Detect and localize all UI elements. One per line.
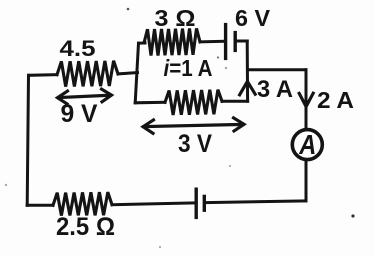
resistor (3 V branch): [165, 90, 222, 115]
wire: left vertical: [27, 75, 28, 205]
wire: box to right vertical (node): [248, 68, 306, 71]
svg-text:4.5: 4.5: [60, 36, 96, 61]
wire: R 3 to battery 6V: [200, 40, 224, 44]
wire: bottom branch right lead: [222, 100, 248, 103]
wire: bottom left segment (lead to R 2.5): [27, 204, 53, 207]
battery (bottom): long plate: [194, 189, 197, 217]
voltage arrow 9 V (double-headed): [59, 95, 111, 97]
svg-text:3 Ω: 3 Ω: [155, 5, 196, 31]
battery (bottom): short plate: [203, 196, 206, 210]
wire: battery 6V to box top-right corner: [237, 40, 247, 43]
wire: box top branch left lead: [139, 41, 146, 44]
voltage arrow 3 V (double-headed): [144, 124, 243, 126]
wire: right vertical below ammeter: [305, 161, 308, 201]
wire: top-left horizontal (left lead of R 4.5): [29, 73, 58, 77]
wire: R 4.5 right lead to box junction: [118, 73, 138, 74]
svg-text:3 V: 3 V: [178, 130, 212, 158]
resistor 3 Ohm: [144, 28, 200, 55]
svg-text:2 A: 2 A: [317, 87, 354, 113]
svg-text:2.5 Ω: 2.5 Ω: [56, 213, 115, 241]
ammeter A (meter circle): [292, 130, 322, 160]
svg-text:i=1 A: i=1 A: [164, 55, 213, 81]
resistor 4.5: [57, 61, 118, 87]
current arrow 2 A (down): [299, 93, 313, 106]
battery 6 V: short plate: [233, 33, 236, 51]
wire: box right vertical: [246, 41, 249, 101]
svg-text:3 A: 3 A: [257, 76, 293, 103]
svg-text:9 V: 9 V: [61, 100, 98, 128]
wire: box left vertical: [135, 43, 138, 103]
wire: battery to bottom-right corner: [206, 201, 306, 203]
resistor 2.5 Ohm: [53, 192, 112, 216]
wire: right vertical above ammeter: [305, 70, 308, 129]
current arrow 3 A (up): [240, 81, 256, 94]
svg-text:A: A: [298, 129, 316, 160]
wire: box bottom branch left lead: [135, 101, 165, 105]
svg-text:6 V: 6 V: [235, 5, 271, 31]
battery 6 V: long plate: [224, 25, 227, 59]
wire: R 2.5 to battery: [112, 203, 195, 205]
